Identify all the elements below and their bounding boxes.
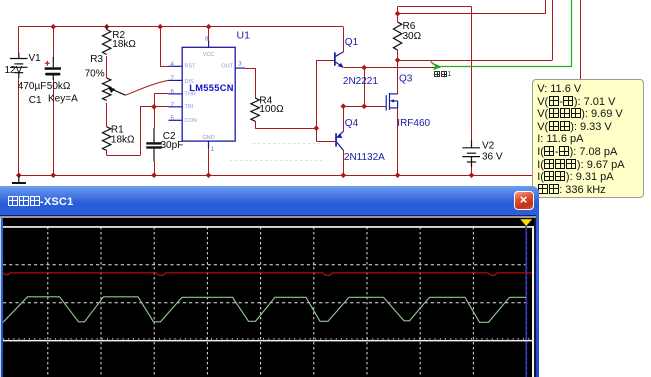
wire ground bottom rail	[19, 175, 533, 177]
wire R6 bottom lead	[397, 50, 399, 60]
transistor Q1 2N2221	[334, 52, 344, 68]
potentiometer R3 50k	[103, 78, 126, 101]
wire V1 bottom	[18, 78, 20, 175]
wire V1 top	[18, 26, 20, 52]
label V2	[482, 141, 495, 152]
svg-text:R3: R3	[90, 54, 103, 65]
svg-text:Q3: Q3	[399, 74, 413, 85]
wire top +12V rail	[19, 26, 344, 28]
svg-text:Key=A: Key=A	[48, 93, 78, 104]
wire to Q4 base	[316, 141, 335, 143]
label R3 key	[48, 93, 78, 104]
resistor R1 18k	[103, 127, 111, 151]
scope channel A red trace	[3, 273, 532, 275]
junction rail Q4	[340, 172, 346, 178]
junction emitter node	[361, 65, 367, 71]
svg-text:100Ω: 100Ω	[259, 104, 284, 115]
scope cursor 2 yellow triangle marker	[520, 219, 532, 226]
label R4 value	[259, 104, 284, 115]
label Q1	[345, 37, 359, 48]
label R4	[259, 96, 272, 107]
scope cursor 2 vertical line	[525, 226, 527, 377]
scope title-client separator	[0, 215, 536, 216]
wire GND pin1	[208, 148, 210, 176]
svg-text:50kΩ: 50kΩ	[47, 81, 71, 92]
svg-text:12V: 12V	[5, 65, 23, 76]
label R3 percent	[85, 68, 105, 79]
wire pot wiper curve	[125, 80, 168, 95]
svg-text:3: 3	[238, 62, 242, 68]
U1 internal pin names	[185, 52, 234, 141]
svg-text:470µF: 470µF	[18, 81, 47, 92]
transistor Q3 IRF460 MOSFET	[386, 93, 397, 111]
wire C2 bottom	[154, 161, 156, 175]
oscilloscope window 示波器-XSC1	[0, 186, 539, 377]
faint dashed line upper	[253, 143, 322, 145]
wire THR pin6 horizontal	[154, 93, 169, 95]
label U1	[237, 29, 251, 41]
wire R6 top leads	[397, 7, 399, 22]
label R2	[112, 30, 125, 41]
svg-text:TRI: TRI	[185, 104, 194, 110]
wire VCC pin8	[208, 27, 210, 42]
svg-text:70%: 70%	[85, 68, 105, 79]
scope white baseline trace with ticks	[3, 340, 532, 341]
wire probe green horizontal	[441, 66, 572, 68]
wire Q4 emitter vertical	[343, 106, 345, 131]
wire V2 vertical	[471, 7, 473, 141]
junction rail GND1	[206, 172, 212, 178]
label Q3	[399, 74, 413, 85]
svg-text:18kΩ: 18kΩ	[111, 134, 135, 145]
junction RST rail	[157, 24, 163, 30]
transistor Q4 2N1132A	[335, 131, 343, 150]
scope graticule dashed vertical grid lines	[47, 227, 526, 377]
wire C2 top lead	[154, 107, 156, 128]
faint dashed line lower	[230, 160, 322, 162]
wire drain node up offscreen	[552, 0, 554, 60]
wire node B up offscreen	[545, 0, 547, 14]
junction C1 top	[50, 24, 56, 30]
wire Q3 source down	[397, 108, 399, 175]
wire R1 bottom down	[106, 151, 108, 156]
svg-text:V2: V2	[482, 141, 495, 152]
wire R6 top to V2	[398, 6, 472, 8]
wire probe green vertical	[571, 0, 573, 67]
probe 探针1 text	[434, 71, 452, 78]
wire V2 bottom	[471, 167, 473, 175]
wire C1 top	[53, 27, 55, 58]
ground	[12, 175, 26, 183]
wire C1 bottom	[53, 80, 55, 175]
svg-text:30pF: 30pF	[161, 140, 184, 151]
svg-text:OUT: OUT	[221, 64, 233, 70]
svg-text:CON: CON	[185, 118, 197, 124]
junction R6 top	[395, 11, 401, 17]
probe measurement tooltip	[532, 79, 644, 199]
svg-text:GND: GND	[202, 135, 214, 141]
label C2	[163, 131, 176, 142]
wire right vertical offscreen	[580, 0, 582, 79]
label Q1 part	[343, 76, 378, 87]
svg-text:1: 1	[211, 147, 215, 153]
junction rail C1	[50, 172, 56, 178]
svg-text:Q1: Q1	[345, 37, 359, 48]
wire node B horizontal	[398, 13, 546, 15]
label R2 value	[112, 39, 136, 50]
U1 pin stubs	[169, 41, 246, 148]
junction R6 bottom drain	[395, 57, 401, 63]
junction VCC rail	[206, 24, 212, 30]
wire THR down to node	[154, 93, 156, 106]
scope right inner dark strip	[534, 218, 535, 377]
wire drain node horizontal	[398, 60, 553, 62]
junction gate node B	[361, 103, 367, 109]
probe 探针1 arrow	[431, 61, 442, 70]
junction base node	[313, 125, 319, 131]
label C1	[29, 95, 42, 106]
scope window left edge highlight	[0, 218, 1, 377]
U1 pin numbers	[171, 37, 243, 153]
battery V2 36V	[462, 140, 480, 167]
wire R4 to bases	[255, 128, 316, 130]
junction gate node A	[340, 103, 346, 109]
wire RST vertical	[160, 27, 162, 67]
scope graticule top border line	[3, 226, 533, 228]
svg-text:4: 4	[171, 62, 175, 68]
junction rail C2	[151, 172, 157, 178]
junction rail V2	[469, 172, 475, 178]
label V2 value	[482, 151, 503, 162]
svg-text:18kΩ: 18kΩ	[112, 39, 136, 50]
svg-text:C1: C1	[29, 95, 42, 106]
svg-text:2N2221: 2N2221	[343, 76, 378, 87]
svg-text:Q4: Q4	[345, 118, 359, 129]
svg-text:U1: U1	[237, 29, 251, 41]
wire R1 bottom horizontal	[107, 155, 141, 157]
junction TRI-THR node	[151, 104, 157, 110]
svg-text:IRF460: IRF460	[397, 118, 430, 129]
scope screen white right border	[532, 226, 534, 377]
svg-text:36 V: 36 V	[482, 151, 503, 162]
junction rail Q3	[395, 172, 401, 178]
svg-text:LM555CN: LM555CN	[189, 83, 233, 93]
capacitor C2 30pF	[146, 128, 161, 161]
label R3 value	[47, 81, 71, 92]
label Q4	[345, 118, 359, 129]
scope channel B green trace	[3, 296, 526, 321]
resistor R4 100	[251, 98, 259, 121]
wire R4 bottom	[255, 121, 257, 128]
wire to Q1 base	[316, 60, 334, 62]
wire Q4 collector down	[343, 150, 345, 175]
label R6	[403, 21, 416, 32]
wire base node vertical	[316, 60, 318, 141]
wire R1 to TRI vertical	[140, 107, 142, 156]
wire TRI pin2	[140, 106, 169, 108]
wire OUT pin3	[245, 68, 255, 70]
svg-text:V1: V1	[29, 53, 42, 64]
svg-text:VCC: VCC	[203, 52, 215, 58]
wire RST pin4	[160, 66, 168, 68]
capacitor C1 470uF	[45, 57, 61, 80]
label Q4 part	[344, 152, 385, 163]
label Q3 part	[397, 118, 430, 129]
junction rail V1	[16, 172, 22, 178]
wire pot R3 to R1	[106, 103, 108, 127]
svg-text:30Ω: 30Ω	[403, 31, 422, 42]
label R1	[111, 125, 124, 136]
svg-text:2N1132A: 2N1132A	[344, 152, 385, 163]
op-amp U1 LM555CN body	[182, 47, 235, 141]
junction R2 top	[104, 24, 110, 30]
label V1	[29, 53, 42, 64]
resistor R6 30	[393, 22, 401, 50]
scope close button	[514, 191, 534, 210]
wire Q1 collector to rail	[343, 27, 345, 53]
wire Q1 emitter node	[344, 67, 441, 69]
label 12V	[5, 65, 23, 76]
scope title text	[7, 196, 73, 208]
scope screen black area	[3, 218, 533, 377]
label LM555CN	[189, 83, 233, 93]
battery V1 12V	[10, 53, 28, 79]
label R3	[90, 54, 103, 65]
wire OUT down to R4	[255, 68, 257, 98]
scope graticule dashed horizontal grid lines	[3, 264, 526, 340]
label 470uF	[18, 81, 47, 92]
label C2 value	[161, 140, 184, 151]
label R1 value	[111, 134, 135, 145]
svg-text:RST: RST	[185, 64, 197, 70]
wire Q3 drain up	[397, 60, 399, 94]
label R6 value	[403, 31, 422, 42]
resistor R2 18k	[103, 27, 111, 55]
wire R2 to pot R3	[106, 56, 108, 78]
wire gate horizontal	[343, 106, 386, 108]
wire emitter to gate vertical	[364, 68, 366, 107]
